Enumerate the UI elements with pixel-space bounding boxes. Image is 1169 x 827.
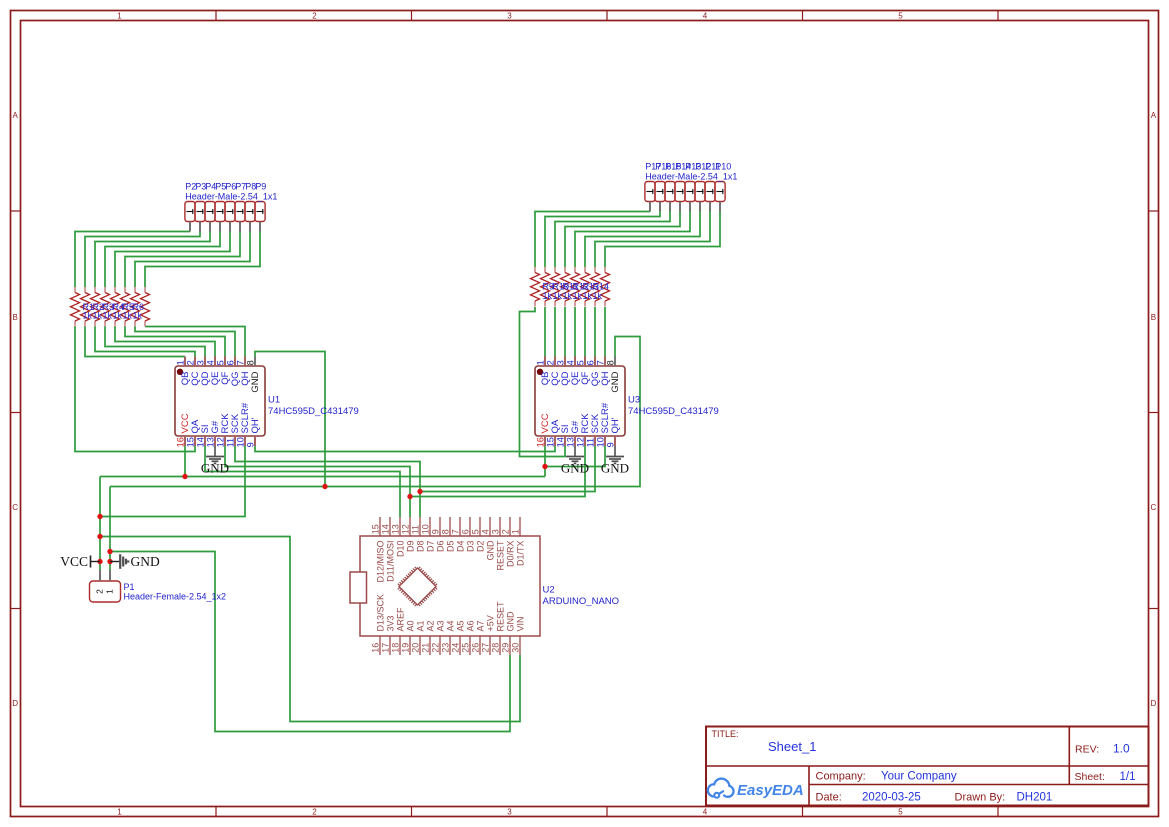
junction node (185,476.5) [182,474,187,479]
wire U3 SCLR# pin10 to VCC [545,446,605,467]
svg-text:D9: D9 [405,541,415,553]
wire P13 to R13 [575,212,690,268]
wire P15 to R11 [555,212,670,268]
junction node (100,561.5) [97,559,102,564]
svg-text:A: A [1151,111,1157,120]
svg-text:Header-Male-2.54_1x1: Header-Male-2.54_1x1 [645,172,737,182]
svg-text:1k: 1k [593,291,603,301]
connector P16 Header-Male-2.54_1x1 [655,182,665,212]
svg-text:QH': QH' [610,417,621,433]
connector P8 Header-Male-2.54_1x1 [245,202,255,232]
svg-text:A5: A5 [455,620,465,631]
resistor R4 1k [101,287,110,327]
svg-text:1: 1 [105,589,115,594]
wire R5 to U1 pin 4 [115,327,215,357]
connector P12 Header-Male-2.54_1x1 [695,182,705,212]
svg-text:A6: A6 [465,620,475,631]
wire VCC vertical to P1 pin2 [99,477,101,571]
resistor R14 1k [581,267,590,307]
svg-text:4: 4 [480,529,490,534]
svg-text:B: B [1151,313,1156,322]
svg-text:30: 30 [510,643,520,653]
svg-text:10: 10 [420,524,430,534]
junction node (110,551.5) [107,549,112,554]
svg-text:Company:: Company: [816,771,866,783]
svg-text:+5V: +5V [485,615,495,631]
svg-text:EasyEDA: EasyEDA [737,782,804,799]
svg-text:QH': QH' [250,417,261,433]
svg-text:U1: U1 [268,395,280,406]
svg-text:GND: GND [505,611,515,632]
ruler ticks bottom [215,807,217,817]
svg-text:6: 6 [225,360,235,365]
ruler ticks right [1149,210,1159,212]
wire U1 RCK pin12 to D9 [225,446,410,517]
svg-text:RESET: RESET [495,601,505,632]
svg-text:4: 4 [205,360,215,365]
svg-text:13: 13 [205,437,215,447]
connector P17 Header-Male-2.54_1x1 [645,182,655,212]
svg-text:D8: D8 [415,541,425,553]
wire U1 QH' pin9 to U3 QA pin15 [255,446,555,452]
junction node (100,516.5) [97,514,102,519]
resistor R13 1k [571,267,580,307]
wire VCC rail [100,476,545,478]
ground symbol under U3 pin9 [601,446,629,476]
svg-text:5: 5 [898,12,903,21]
svg-text:16: 16 [535,437,545,447]
wire P5 to R4 [105,232,220,288]
svg-text:11: 11 [585,438,595,448]
wire P16 to R10 [545,212,660,268]
svg-text:A2: A2 [425,620,435,631]
svg-text:P1: P1 [124,582,135,592]
svg-text:D: D [12,699,18,708]
svg-text:2: 2 [500,529,510,534]
svg-text:GND: GND [601,461,629,476]
connector P11 Header-Male-2.54_1x1 [705,182,715,212]
wire R9 to U3 SI pin14 [520,307,566,457]
svg-text:2: 2 [312,808,317,817]
resistor R12 1k [561,267,570,307]
wire U1 GND pin8 to GND bus [255,352,325,487]
wire P6 to R5 [115,232,230,288]
svg-text:7: 7 [235,360,245,365]
wire GND vertical to P1 pin1 [109,487,111,571]
svg-text:D7: D7 [425,541,435,553]
junction node (110,561.5) [107,559,112,564]
svg-text:25: 25 [460,643,470,653]
svg-text:1k: 1k [583,291,593,301]
svg-text:Sheet_1: Sheet_1 [768,739,816,754]
svg-text:A7: A7 [475,620,485,631]
wire P4 to R3 [95,232,210,288]
connector P15 Header-Male-2.54_1x1 [665,182,675,212]
ground symbol right of P1 [110,554,160,569]
svg-text:GND: GND [610,371,621,392]
wire R7 to U1 pin 6 [135,327,235,357]
junction node (420,491.5) [417,489,422,494]
svg-text:D: D [1151,699,1157,708]
svg-text:A0: A0 [405,620,415,631]
svg-text:4: 4 [703,808,708,817]
svg-text:29: 29 [500,643,510,653]
wire U1 SI pin14 to D10 [205,446,400,517]
connector P2 Header-Male-2.54_1x1 [185,202,195,232]
connector P4 Header-Male-2.54_1x1 [205,202,215,232]
resistor R2 1k [81,287,90,327]
wire R3 to U1 pin 2 [95,327,195,357]
resistor R10 1k [541,267,550,307]
svg-text:1: 1 [510,529,520,534]
svg-text:16: 16 [175,437,185,447]
wire P7 to R6 [125,232,240,288]
svg-text:D4: D4 [455,541,465,553]
svg-text:1k: 1k [563,291,573,301]
svg-text:15: 15 [185,437,195,447]
svg-text:GND: GND [561,461,589,476]
wire R8 to U1 pin 7 [145,327,245,357]
svg-text:9: 9 [605,442,615,447]
wire R13 to U3 pin 4 [574,307,576,357]
svg-text:3: 3 [507,808,512,817]
svg-text:C: C [1151,503,1157,512]
connector P6 Header-Male-2.54_1x1 [225,202,235,232]
wire GND bus to U3 pin8 [110,337,640,487]
svg-text:1k: 1k [103,311,113,321]
junction node (410,496.5) [407,494,412,499]
svg-text:26: 26 [470,643,480,653]
svg-text:3: 3 [555,360,565,365]
resistor R1 1k [71,287,80,327]
svg-text:Drawn By:: Drawn By: [955,792,1006,804]
svg-text:15: 15 [370,524,380,534]
connector P5 Header-Male-2.54_1x1 [215,202,225,232]
svg-text:6: 6 [460,529,470,534]
wire R15 to U3 pin 6 [594,307,596,357]
connector P9 Header-Male-2.54_1x1 [255,202,265,232]
svg-text:1k: 1k [543,291,553,301]
op-amp U3 74HC595D_C431479 shift register [535,357,625,448]
svg-text:P9: P9 [255,182,266,192]
wire U3 VCC pin16 drop [544,446,546,477]
svg-text:14: 14 [195,437,205,447]
ground symbol under U1 pin13 [201,446,229,476]
wire P12 to R14 [585,212,700,268]
resistor R7 1k [131,287,140,327]
ruler ticks left [11,210,21,212]
svg-text:Header-Male-2.54_1x1: Header-Male-2.54_1x1 [185,192,277,202]
junction node (100,536.5) [97,534,102,539]
wire P2 to R1 [75,232,190,288]
svg-text:17: 17 [380,643,390,653]
svg-text:1k: 1k [573,291,583,301]
svg-text:1k: 1k [553,291,563,301]
svg-text:D5: D5 [445,541,455,553]
svg-text:27: 27 [480,643,490,653]
svg-text:GND: GND [485,540,495,561]
wire P10 to R16 [605,212,720,268]
power VCC symbol [60,554,100,569]
wire R2 to U1 pin 1 [85,327,185,357]
svg-text:8: 8 [605,360,615,365]
svg-text:1k: 1k [113,311,123,321]
svg-text:13: 13 [390,524,400,534]
title block frame [706,727,1149,807]
svg-text:14: 14 [380,524,390,534]
svg-text:1k: 1k [123,311,133,321]
svg-text:VIN: VIN [515,616,525,631]
wire R12 to U3 pin 3 [564,307,566,357]
svg-text:7: 7 [595,360,605,365]
svg-text:9: 9 [430,529,440,534]
svg-text:D2: D2 [475,541,485,553]
svg-text:DH201: DH201 [1017,792,1053,804]
microcontroller U2 ARDUINO_NANO [350,517,540,655]
svg-text:2: 2 [312,12,317,21]
svg-text:Your Company: Your Company [881,771,957,783]
wire P17 to R9 [535,212,650,268]
svg-text:5: 5 [898,808,903,817]
connector P3 Header-Male-2.54_1x1 [195,202,205,232]
wire RCK branch to U3 pin12 [410,446,585,497]
svg-text:1/1: 1/1 [1120,771,1136,783]
wire R14 to U3 pin 5 [584,307,586,357]
svg-text:5: 5 [575,360,585,365]
svg-text:AREF: AREF [395,607,405,632]
svg-text:10: 10 [595,437,605,447]
svg-text:GND: GND [250,371,261,392]
svg-text:10: 10 [235,437,245,447]
svg-text:RESET: RESET [495,540,505,571]
svg-text:1k: 1k [83,311,93,321]
wire P8 to R7 [135,232,250,288]
wire GND to arduino GND pin29 [110,552,510,732]
svg-text:21: 21 [420,643,430,653]
svg-text:1.0: 1.0 [1113,742,1130,756]
wire U1 SCK pin11 to D8 [235,446,420,517]
wire R16 to U3 pin 7 [604,307,606,357]
wire P14 to R12 [565,212,680,268]
svg-text:2020-03-25: 2020-03-25 [862,792,921,804]
svg-text:3: 3 [195,360,205,365]
svg-text:D10: D10 [395,541,405,558]
svg-text:Header-Female-2.54_1x2: Header-Female-2.54_1x2 [124,592,227,602]
svg-text:9: 9 [245,442,255,447]
svg-text:1: 1 [535,360,545,365]
svg-text:15: 15 [545,437,555,447]
svg-text:8: 8 [440,529,450,534]
svg-text:12: 12 [400,524,410,534]
svg-text:A: A [13,111,19,120]
resistor R5 1k [111,287,120,327]
ground symbol under U3 pin13 [561,446,589,476]
svg-text:TITLE:: TITLE: [712,729,739,739]
svg-text:D13/SCK: D13/SCK [375,594,385,632]
op-amp U1 74HC595D_C431479 shift register [175,357,265,448]
svg-text:12: 12 [215,437,225,447]
svg-text:Date:: Date: [816,792,842,804]
svg-text:2: 2 [545,360,555,365]
svg-text:5: 5 [470,529,480,534]
resistor R16 1k [601,267,610,307]
svg-text:1k: 1k [133,311,143,321]
svg-text:ARDUINO_NANO: ARDUINO_NANO [543,596,620,607]
ruler ticks top [215,11,217,21]
svg-text:13: 13 [565,437,575,447]
svg-text:GND: GND [131,554,160,569]
svg-text:GND: GND [201,461,229,476]
resistor R8 1k [141,287,150,327]
svg-text:16: 16 [370,643,380,653]
resistor R3 1k [91,287,100,327]
wire R11 to U3 pin 2 [554,307,556,357]
svg-text:1: 1 [117,12,122,21]
svg-text:D0/RX: D0/RX [505,541,515,568]
wire P3 to R2 [85,232,200,288]
svg-text:Sheet:: Sheet: [1075,771,1105,783]
svg-text:U2: U2 [543,585,555,596]
junction node (325,486.5) [322,484,327,489]
wire R1 to U1 QA pin15 [75,327,195,452]
wire P11 to R15 [595,212,710,268]
wire R10 to U3 pin 1 [544,307,546,357]
svg-text:4: 4 [565,360,575,365]
wire U1 SCLR# pin10 to VCC [100,446,245,517]
svg-text:REV:: REV: [1075,744,1099,756]
connector P13 Header-Male-2.54_1x1 [685,182,695,212]
svg-text:A1: A1 [415,620,425,631]
svg-text:R14: R14 [593,281,610,291]
wire R6 to U1 pin 5 [125,327,225,357]
wire SCK branch to U3 pin11 [420,446,595,492]
svg-text:4: 4 [703,12,708,21]
wire U1 VCC pin16 drop [184,446,186,477]
wire P9 to R8 [145,232,260,288]
resistor R15 1k [591,267,600,307]
svg-text:14: 14 [555,437,565,447]
svg-text:7: 7 [450,529,460,534]
wire R4 to U1 pin 3 [105,327,205,357]
connector P7 Header-Male-2.54_1x1 [235,202,245,232]
svg-text:20: 20 [410,643,420,653]
svg-text:19: 19 [400,643,410,653]
svg-text:6: 6 [585,360,595,365]
EasyEDA logo [708,779,804,799]
svg-text:3V3: 3V3 [385,615,395,631]
svg-text:74HC595D_C431479: 74HC595D_C431479 [268,406,359,417]
svg-text:A4: A4 [445,620,455,631]
svg-text:74HC595D_C431479: 74HC595D_C431479 [628,406,719,417]
svg-text:5: 5 [215,360,225,365]
wire VCC to VIN pin30 [100,537,520,722]
svg-text:23: 23 [440,643,450,653]
svg-text:A3: A3 [435,620,445,631]
svg-text:D12/MISO: D12/MISO [375,541,385,583]
svg-text:28: 28 [490,643,500,653]
svg-text:1k: 1k [93,311,103,321]
svg-text:P10: P10 [715,162,731,172]
svg-text:18: 18 [390,643,400,653]
svg-text:VCC: VCC [60,554,88,569]
connector P14 Header-Male-2.54_1x1 [675,182,685,212]
junction node (545,466.5) [542,464,547,469]
svg-text:D1/TX: D1/TX [515,541,525,567]
svg-text:3: 3 [507,12,512,21]
svg-text:B: B [13,313,18,322]
svg-text:1: 1 [117,808,122,817]
svg-text:11: 11 [225,438,235,448]
svg-text:11: 11 [410,525,420,534]
connector P1 Header-Female-2.54_1x2 [90,570,121,602]
resistor R6 1k [121,287,130,327]
svg-text:D11/MOSI: D11/MOSI [385,541,395,582]
resistor R11 1k [551,267,560,307]
resistor R9 1k [531,267,540,307]
svg-text:1: 1 [175,360,185,365]
connector P10 Header-Male-2.54_1x1 [715,182,725,212]
svg-text:2: 2 [185,360,195,365]
svg-text:12: 12 [575,437,585,447]
svg-text:22: 22 [430,643,440,653]
svg-text:D6: D6 [435,541,445,553]
svg-text:3: 3 [490,529,500,534]
svg-text:24: 24 [450,643,460,653]
svg-text:D3: D3 [465,541,475,553]
svg-text:8: 8 [245,360,255,365]
svg-text:U3: U3 [628,395,640,406]
svg-text:2: 2 [95,589,105,594]
svg-text:C: C [12,503,18,512]
